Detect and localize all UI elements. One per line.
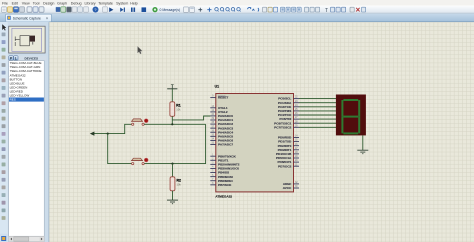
wire R1 node to PA0 pin [172, 116, 210, 120]
svg-text:RESET: RESET [218, 96, 228, 100]
svg-text:10k: 10k [176, 108, 181, 112]
svg-text:Design: Design [43, 1, 54, 5]
pin 2 (PB1/T1) [210, 158, 228, 162]
pin 13 (XTAL1) [210, 106, 228, 110]
pin 17 (PD3/INT1) [278, 148, 299, 152]
svg-text:U1: U1 [215, 85, 220, 89]
pin 29 (PC7/TOSC2) [274, 125, 299, 129]
wire arrow terminal to button 1 [94, 124, 132, 133]
7-segment display DISP1 [336, 95, 366, 136]
pin 19 (PD5/OC1A) [276, 156, 299, 160]
pin 35 (PA5/ADC5) [210, 134, 233, 138]
pin 18 (PD4/OC1B) [276, 152, 299, 156]
svg-text:Library: Library [85, 1, 96, 5]
wire button 1 to chip column [144, 123, 205, 125]
svg-text:L: L [15, 56, 17, 60]
ground (display) [357, 150, 368, 154]
svg-text:Template: Template [98, 1, 113, 5]
svg-text:10k: 10k [177, 183, 182, 187]
wire PC6 to display [299, 122, 336, 124]
wire column down to button 2 row [144, 124, 205, 163]
pin 27 (PC5/TDI) [279, 117, 299, 121]
pin 25 (PC3/TMS) [278, 109, 299, 113]
pin 34 (PA6/ADC6) [210, 139, 233, 143]
pin 30 (AVCC) [283, 186, 299, 190]
side panel background [8, 22, 49, 242]
pin 33 (PA7/ADC7) [210, 143, 233, 147]
devices header with P L buttons [9, 56, 47, 61]
devices list [9, 61, 45, 237]
pin 14 (PD0/RXD) [278, 136, 299, 140]
pin 22 (PC0/SCL) [278, 97, 299, 101]
pin 7 (PB6/MISO) [210, 179, 233, 183]
svg-text:R1: R1 [176, 104, 180, 108]
pin 16 (PD2/INT0) [278, 144, 299, 148]
pin 36 (PA4/ADC4) [210, 130, 233, 134]
svg-text:Tool: Tool [33, 1, 40, 5]
svg-text:Debug: Debug [71, 1, 82, 5]
wire PC2 to display [299, 106, 336, 108]
svg-text:Help: Help [130, 1, 138, 5]
svg-text:RES: RES [10, 98, 16, 102]
push button BTN2 [131, 158, 148, 165]
left mode toolbar [0, 22, 8, 234]
svg-text:PA7/ADC7: PA7/ADC7 [218, 143, 233, 147]
svg-text:View: View [22, 1, 30, 5]
menubar [0, 0, 474, 6]
pin 8 (PB7/SCK) [210, 183, 232, 187]
svg-text:✕: ✕ [46, 17, 49, 21]
junction at R1 node [171, 123, 173, 125]
pin 3 (PB2/AIN0/INT2) [210, 162, 239, 166]
wire node A down to button 2 [108, 134, 132, 164]
resistor R1 [170, 102, 181, 117]
svg-text:AVCC: AVCC [283, 186, 292, 190]
pin 24 (PC2/TCK) [278, 105, 299, 109]
pin 1 (PB0/T0/XCK) [210, 154, 236, 158]
tab bar [0, 13, 474, 22]
pin 40 (PA0/ADC0) [210, 114, 233, 118]
svg-text:Graph: Graph [57, 1, 67, 5]
pin 26 (PC4/TDO) [278, 113, 299, 117]
svg-text:T: T [325, 8, 328, 14]
pin 9 (RESET) [210, 96, 228, 100]
wire PC4 to display [299, 114, 336, 116]
wire R2 to ground [172, 191, 174, 200]
junction at R2 node [171, 163, 173, 165]
wire PC1 to display [299, 102, 336, 104]
svg-text:DEVICES: DEVICES [25, 56, 39, 60]
pin 4 (PB3/AIN1/OC0) [210, 167, 239, 171]
svg-text:File: File [2, 1, 8, 5]
svg-text:System: System [116, 1, 128, 5]
wire PC0 to display [299, 98, 336, 100]
ground (R2) [167, 200, 178, 204]
wire R1 to button row node [171, 116, 173, 124]
pin 38 (PA2/ADC2) [210, 122, 233, 126]
pin 21 (PD7/OC2) [278, 164, 299, 168]
svg-text:0 Message(s): 0 Message(s) [160, 8, 181, 12]
pin 6 (PB5/MOSI) [210, 175, 233, 179]
push button BTN1 [131, 119, 148, 126]
toolbar [0, 6, 474, 14]
pin 12 (XTAL2) [210, 110, 228, 114]
svg-text:PB7/SCK: PB7/SCK [218, 183, 232, 187]
pin 23 (PC1/SDA) [278, 101, 299, 105]
pin 37 (PA3/ADC3) [210, 126, 233, 130]
resistor R2 [170, 177, 181, 191]
svg-text:PD7/OC2: PD7/OC2 [278, 164, 292, 168]
svg-text:Schematic Capture: Schematic Capture [13, 16, 41, 20]
pin 5 (PB4/SS) [210, 171, 229, 175]
pin 20 (PD6/ICP1) [278, 160, 299, 164]
mouse cursor [138, 46, 143, 54]
svg-text:PC7/TOSC2: PC7/TOSC2 [274, 125, 291, 129]
pin 32 (AREF) [283, 182, 299, 186]
devices list horizontal scrollbar [9, 236, 45, 241]
wire display common cathode to ground [362, 135, 364, 150]
svg-text:ATMEGA32: ATMEGA32 [215, 195, 232, 199]
input terminal (arrow) [90, 132, 95, 136]
wire R2 node down [172, 164, 174, 177]
wire VCC to R1 [171, 89, 173, 102]
IC U1 (ATMEGA32 microcontroller) [215, 85, 294, 199]
svg-text:R2: R2 [177, 179, 181, 183]
junction node A [107, 133, 109, 135]
wire PC7 to display [299, 126, 336, 128]
pin 28 (PC6/TOSC1) [274, 121, 299, 125]
svg-text:Edit: Edit [12, 1, 18, 5]
wire PC5 to display [299, 118, 336, 120]
wire PC3 to display [299, 110, 336, 112]
overview pane [9, 26, 45, 53]
pin 15 (PD1/TXD) [278, 140, 299, 144]
pin 39 (PA1/ADC1) [210, 118, 233, 122]
power VCC terminal [167, 85, 177, 89]
